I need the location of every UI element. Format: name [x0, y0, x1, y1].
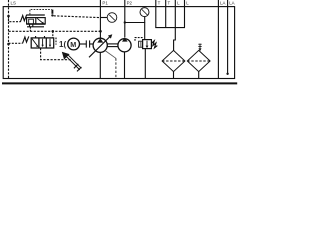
wire dashed branch V1 right to V2 right [52, 31, 54, 38]
wire pump P1 suction [99, 52, 101, 78]
wire LS vertical dashed line [8, 11, 10, 79]
valve V1 right cell arrow [37, 18, 43, 23]
solenoid actuator of valve V1 (zigzag) [20, 15, 26, 22]
node LA2 end dot [226, 73, 228, 75]
wire T/L manifold bus [155, 11, 157, 28]
motor M1 circle [68, 38, 80, 50]
svg-text:LA: LA [229, 1, 234, 6]
border frame [3, 7, 234, 79]
wire V2 bottom dashed to pump control [41, 48, 71, 60]
svg-text:T: T [168, 1, 171, 6]
solenoid actuator of valve V2 (zigzag) [23, 36, 29, 43]
svg-text:1(: 1( [59, 40, 66, 49]
node junction dot on P1 rail [99, 30, 102, 33]
wire line below V1 [27, 26, 44, 28]
node P2 tick [124, 0, 126, 11]
shaft coupling motor-pump [80, 43, 87, 45]
filter F1 diamond [162, 50, 185, 71]
wire relief valve outlet [144, 49, 146, 79]
wire dashed LS rail y31.6 [9, 30, 101, 32]
relief valve internal arrow [146, 41, 148, 47]
node P1 tick [99, 0, 101, 11]
valve V2 right cell arrows [43, 39, 50, 46]
wire LA2 line [227, 11, 229, 73]
wire L1 line down to filter [174, 11, 176, 51]
page edge bar bottom [2, 82, 237, 84]
wire P1 pressure line [99, 11, 101, 38]
wire relief valve feed [144, 23, 146, 40]
pump P2 circle (fixed) [118, 39, 131, 52]
svg-text:LA: LA [220, 1, 225, 6]
svg-text:M: M [70, 40, 76, 49]
wire dashed branch to valve V2 pilot [9, 42, 23, 44]
node L2 tick [184, 0, 186, 11]
svg-text:P1: P1 [102, 1, 108, 6]
svg-text:P2: P2 [127, 1, 133, 6]
node LA2 tick [227, 0, 229, 11]
gauge G1 [107, 13, 117, 23]
node T1 tick [155, 0, 157, 11]
wire dashed branch to valve V1 pilot [9, 16, 21, 22]
svg-text:L: L [186, 1, 189, 6]
node T2 tick [165, 0, 167, 11]
wire filter F1 outlet [173, 72, 175, 79]
node junction dot P2/gauge [124, 21, 126, 23]
wire dashed stub V1 to LS rail [29, 27, 31, 32]
wire LA1 line [217, 11, 219, 79]
wire filter F2 outlet [198, 72, 200, 79]
node junction dot on LS at y44 [7, 43, 10, 46]
wire gauge G2 branch [125, 17, 145, 23]
pump P1 outlet triangle [97, 38, 103, 42]
svg-text:L: L [177, 1, 180, 6]
filter F2 element dashed [187, 60, 210, 62]
node LS tick (dashed) [8, 0, 10, 11]
node junction dot pilot rail [51, 14, 53, 16]
wire relief pilot dashed [135, 38, 143, 42]
pump P1 circle (variable displacement) [93, 38, 107, 52]
filter F2 diamond [187, 50, 210, 71]
node LA1 tick [217, 0, 219, 11]
relief valve left chamber [139, 41, 143, 47]
pump P2 outlet triangle [122, 37, 128, 41]
valve V1 body (pump compensator) [26, 15, 45, 24]
pump P1 variable arrow diagonal [89, 36, 111, 58]
svg-text:T: T [158, 1, 161, 6]
wire dashed feedback box above V1 [30, 9, 52, 14]
svg-text:LS: LS [11, 1, 16, 6]
wire pump P2 suction [124, 52, 126, 79]
wire gauge G1 stub [100, 17, 107, 19]
wire feedback bar [51, 10, 53, 14]
control arrow end ticks [74, 64, 78, 68]
control arrow onto pump (double line) [66, 55, 81, 70]
shaft pump1-pump2 double line [107, 43, 118, 45]
valve V2 body [31, 38, 54, 48]
wire P2 pressure line [124, 11, 126, 37]
relief valve RV body [143, 40, 152, 49]
node junction dot rail/branch [52, 30, 55, 33]
valve V2 left cell arrow [32, 39, 38, 47]
valve V1 left cell window symbol [29, 19, 34, 24]
pump P1 case drain diagonal [105, 51, 116, 59]
wire V1 bottom port stubs [29, 24, 31, 27]
wire case drain dashed down [115, 58, 117, 78]
node junction dot on LS at y16 [7, 15, 10, 18]
gauge G2 [140, 8, 149, 17]
filter F2 inlet arrow symbol [199, 44, 201, 50]
wire dashed pilot rail to P1 [54, 16, 101, 18]
relief valve spring [152, 41, 158, 48]
node L1 tick [174, 0, 176, 11]
wire V2 top port stubs [35, 36, 37, 38]
filter F1 element dashed [162, 60, 185, 62]
